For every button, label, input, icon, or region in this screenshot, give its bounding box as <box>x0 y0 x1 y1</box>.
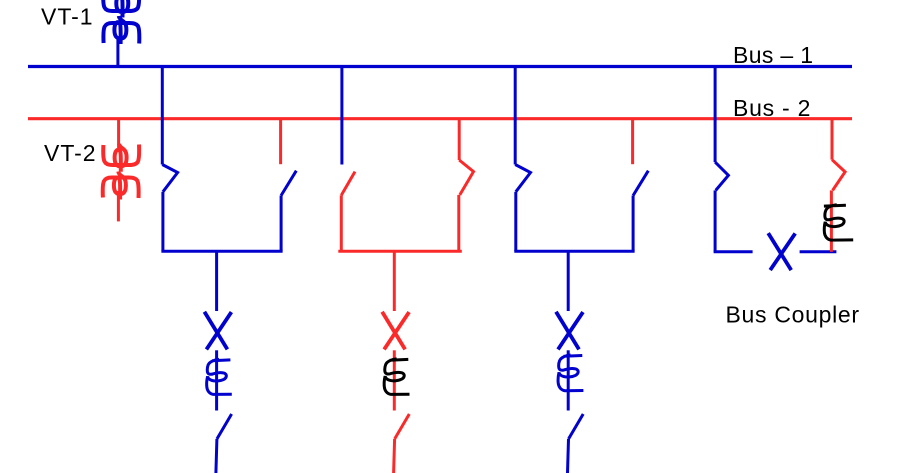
wire coupler left leg <box>714 190 717 251</box>
wire bay3 feeder drop <box>567 251 570 311</box>
VT-1 secondary winding centre loop <box>114 16 126 44</box>
current transformer bay3 <box>558 355 583 391</box>
svg-text:Bus Coupler: Bus Coupler <box>726 301 860 327</box>
VT-2 secondary winding centre loop <box>114 172 126 200</box>
VT-2 primary winding centre loop <box>115 144 127 172</box>
wire VT-1 lead to Bus-1 <box>116 37 119 67</box>
wire bay3 bottom tie <box>514 250 634 253</box>
VT-1 primary winding centre loop <box>116 0 128 18</box>
wire coupler riser from Bus-2 <box>831 119 834 160</box>
disconnector bay2 feeder isolator (open blade) <box>395 414 410 439</box>
svg-text:Bus - 2: Bus - 2 <box>733 95 811 121</box>
disconnector bay3 Bus-2 side (open blade) <box>633 171 648 196</box>
voltage transformer VT-1 primary winding (top, clipped) <box>103 0 139 11</box>
current transformer coupler <box>824 205 853 240</box>
circuit breaker bay1 (X) <box>204 312 231 350</box>
wire coupler right leg <box>830 190 833 251</box>
wire coupler right horizontal dash <box>800 250 837 253</box>
wire VT-2 secondary tail <box>117 191 120 221</box>
voltage transformer VT-2 secondary winding <box>103 178 139 199</box>
wire bay1 stub from Bus-2 <box>279 119 282 165</box>
disconnector bay1 Bus-1 side (closed) <box>162 165 177 192</box>
svg-text:VT-2: VT-2 <box>44 140 97 166</box>
wire bay2 riser from Bus-2 <box>458 119 461 160</box>
wire bay2 right leg <box>457 195 460 251</box>
wire bay3 left leg <box>514 192 517 251</box>
wire VT-2 lead from Bus-2 <box>117 119 120 150</box>
current transformer bay2 <box>384 359 409 395</box>
disconnector coupler Bus-2 side (closed) <box>832 160 845 191</box>
disconnector bay3 feeder isolator (open blade) <box>569 414 584 439</box>
current transformer bay1 <box>207 359 232 394</box>
wire bay3 right leg <box>632 196 635 252</box>
disconnector bay1 Bus-2 side (open blade) <box>281 171 296 196</box>
voltage transformer VT-1 secondary winding <box>103 23 139 44</box>
disconnector bay1 feeder isolator (open blade) <box>217 414 232 439</box>
wire coupler riser from Bus-1 <box>714 67 717 163</box>
svg-text:VT-1: VT-1 <box>41 4 94 30</box>
circuit breaker bay2 (X) <box>382 312 409 350</box>
wire bay1 bottom tie <box>161 250 282 253</box>
wire bay2 feeder tail <box>394 439 395 473</box>
wire bay3 riser from Bus-1 <box>514 67 517 165</box>
voltage transformer VT-2 primary winding <box>103 145 139 166</box>
svg-text:Bus – 1: Bus – 1 <box>733 42 813 68</box>
disconnector bay3 Bus-1 side (closed) <box>515 165 530 192</box>
circuit breaker bay3 (X) <box>556 312 583 350</box>
disconnector bay2 Bus-1 side (open blade) <box>341 172 355 196</box>
wire bay1 feeder tail <box>216 439 217 473</box>
wire bay2 bottom tie <box>338 250 462 253</box>
circuit breaker coupler (X) <box>768 233 795 270</box>
wire bay2 riser from Bus-1 <box>340 67 343 165</box>
bus Bus-1 (blue busbar) <box>28 65 852 68</box>
wire bay3 breaker to isolator <box>567 350 570 410</box>
wire bay1 right leg <box>280 196 283 252</box>
wire bay1 breaker to isolator <box>215 350 218 410</box>
wire bay1 riser from Bus-1 <box>161 67 164 165</box>
bus Bus-2 (red busbar) <box>28 117 852 120</box>
wire coupler left horizontal <box>714 250 753 253</box>
disconnector coupler Bus-1 side (closed) <box>715 162 728 190</box>
wire bay1 left leg <box>161 192 164 251</box>
disconnector bay2 Bus-2 side (closed) <box>459 160 473 195</box>
wire bay2 feeder drop <box>393 251 396 311</box>
wire bay2 breaker to isolator <box>393 350 396 410</box>
wire bay1 feeder drop <box>215 251 218 311</box>
wire bay3 stub from Bus-2 <box>631 119 634 165</box>
wire bay3 feeder tail <box>568 439 569 473</box>
wire bay2 left leg <box>340 195 343 251</box>
